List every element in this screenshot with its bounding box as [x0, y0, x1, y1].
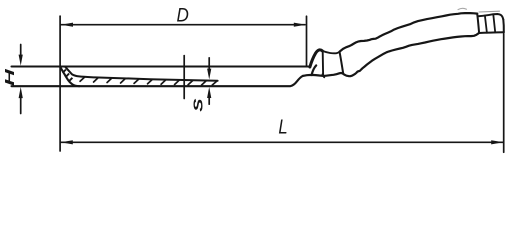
wood end face line [477, 14, 479, 33]
extension line right of pan for D [306, 16, 308, 65]
boss-ferrule bottom knot [323, 74, 325, 77]
H lower arrow [20, 97, 22, 114]
dimension line D [61, 24, 305, 26]
pan left outer wall [60, 67, 79, 86]
inner lip arc [312, 65, 317, 75]
svg-text:D: D [177, 5, 189, 26]
section boundary line [183, 56, 185, 99]
cap face line [493, 15, 495, 33]
pan bottom section hatching [80, 77, 217, 85]
extension line right of handle for L [503, 34, 505, 153]
dimension line L [61, 141, 503, 143]
cap right edge [502, 20, 505, 33]
boss right edge [322, 52, 324, 75]
wall section hatching [63, 70, 73, 82]
svg-text:S: S [191, 98, 206, 112]
arrowhead D left [61, 23, 73, 27]
faint knob ghost arc [458, 8, 467, 9]
cap bottom edge [479, 31, 504, 34]
H upper arrow [20, 45, 22, 58]
extension line left shared by D and L [59, 16, 61, 151]
faint cap top ghost line [479, 10, 500, 13]
H top extension line merged with pan rim line [12, 65, 311, 67]
pan left inner wall and inner bottom surface [65, 67, 217, 81]
H bottom extension line merged with pan outer bottom [12, 76, 303, 86]
arrowhead L left [61, 140, 73, 144]
bracket underside [303, 73, 343, 76]
wood face line at ferrule [340, 52, 344, 74]
S upper arrow [208, 58, 210, 70]
arrowhead D right [294, 23, 306, 27]
cap top edge [478, 14, 503, 20]
wooden handle top edge [340, 13, 478, 52]
boss left edge bold curve from pan lip [310, 50, 323, 67]
S lower arrow [208, 97, 210, 104]
cap collar line [485, 16, 487, 33]
svg-text:H: H [2, 69, 17, 86]
svg-text:L: L [278, 115, 287, 138]
ferrule top edge [322, 51, 339, 53]
wooden handle bottom edge [343, 33, 479, 76]
arrowhead L right [491, 140, 503, 144]
